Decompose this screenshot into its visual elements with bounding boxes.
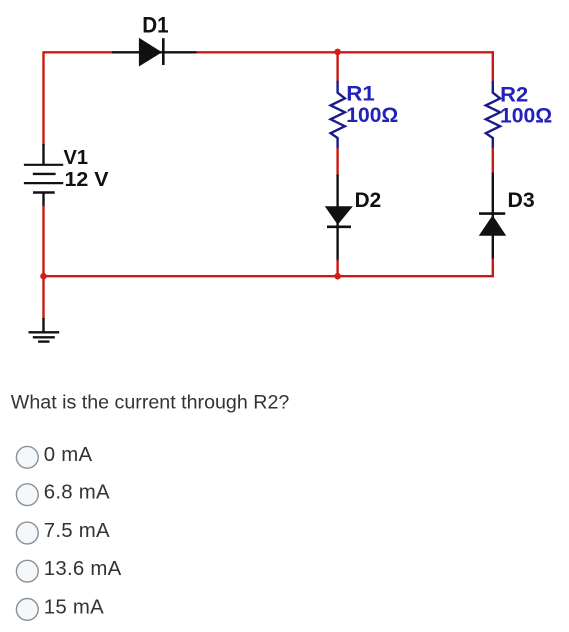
wire: middle branch upper red [336, 52, 338, 81]
svg-text:12 V: 12 V [65, 169, 110, 191]
junction node top middle [334, 49, 341, 56]
svg-text:100Ω: 100Ω [500, 104, 552, 128]
wire: left vertical upper red [42, 51, 44, 145]
ground bar 2 [33, 336, 55, 338]
svg-text:13.6 mA: 13.6 mA [44, 558, 122, 580]
svg-text:What is the current through R2: What is the current through R2? [11, 392, 290, 414]
wire: left stub down to ground red [42, 276, 44, 319]
svg-text:R1: R1 [346, 82, 375, 106]
svg-text:D2: D2 [355, 188, 382, 212]
wire: right branch mid red [492, 148, 494, 174]
wire: top rail right red segment [197, 51, 494, 53]
diode D3 cathode bar [479, 212, 505, 215]
svg-text:D3: D3 [508, 188, 535, 212]
junction node bottom left [40, 273, 47, 280]
svg-text:0 mA: 0 mA [44, 444, 93, 466]
diode D1 triangle [139, 38, 162, 67]
wire: right branch upper red [492, 51, 494, 81]
svg-text:V1: V1 [64, 147, 89, 169]
wire: middle branch black through D2 [336, 175, 338, 261]
battery V1 plate long top [24, 164, 63, 166]
wire: middle branch mid red [336, 148, 338, 176]
wire: top rail left red segment [44, 51, 114, 53]
wire: bottom rail red [44, 275, 494, 277]
radio button option 2 [16, 484, 38, 506]
ground bar 3 [38, 340, 49, 342]
diode D1 cathode bar [162, 38, 165, 65]
battery V1 plate long bottom [24, 182, 63, 184]
resistor R1 [331, 81, 345, 149]
junction node bottom middle [334, 273, 341, 280]
diode D2 triangle [325, 206, 353, 225]
svg-text:100Ω: 100Ω [346, 103, 398, 127]
svg-text:D1: D1 [142, 12, 168, 37]
radio button option 4 [16, 560, 38, 582]
battery V1 bottom lead [42, 193, 44, 207]
svg-text:15 mA: 15 mA [44, 596, 104, 618]
wire: top rail black segment through D1 [112, 51, 198, 53]
resistor R2 [486, 81, 500, 149]
battery V1 plate short lower [33, 191, 55, 193]
svg-text:7.5 mA: 7.5 mA [44, 520, 110, 542]
radio button option 3 [16, 522, 38, 544]
wire: right branch black through D3 [492, 173, 494, 260]
radio button option 1 [16, 446, 38, 468]
battery V1 top lead [42, 144, 44, 165]
wire: right branch lower red [492, 259, 494, 278]
radio button option 5 [16, 599, 38, 621]
diode D3 triangle [479, 215, 506, 236]
wire: left vertical lower red [42, 206, 44, 278]
battery V1 plate short upper [33, 173, 56, 175]
ground bar 1 [29, 331, 60, 333]
wire: middle branch lower red [336, 260, 338, 278]
ground lead black [42, 318, 44, 332]
svg-text:6.8 mA: 6.8 mA [44, 482, 110, 504]
diode D2 cathode bar [327, 226, 351, 229]
